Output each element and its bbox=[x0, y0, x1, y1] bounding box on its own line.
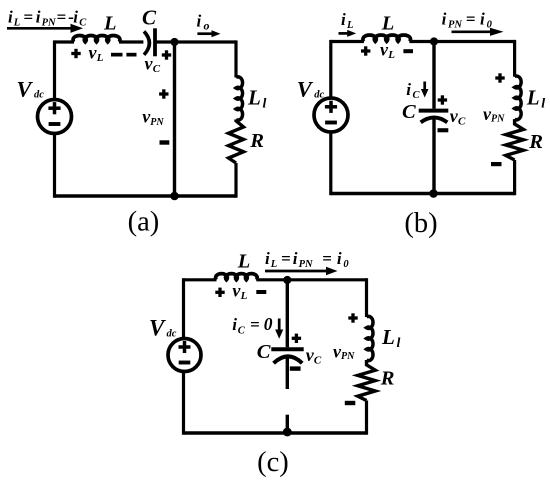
label Ll (b) bbox=[526, 86, 546, 112]
wire right lower (b) bbox=[513, 160, 516, 195]
label iC (b) bbox=[406, 80, 420, 101]
current arrow iL (b) bbox=[339, 30, 357, 37]
label C (c) bbox=[257, 341, 271, 363]
caption (a) bbox=[128, 207, 160, 238]
wire top-right (c) bbox=[256, 278, 366, 281]
plus vL (a) bbox=[71, 49, 80, 58]
svg-text:R: R bbox=[528, 131, 543, 153]
voltage source Vdc (b) bbox=[314, 98, 348, 132]
current arrow iC down (c) bbox=[275, 319, 283, 339]
wire middle upper (c) bbox=[286, 280, 289, 347]
label C (a) bbox=[142, 6, 157, 30]
current arrow iL (a) bbox=[7, 24, 83, 33]
plus vL (b) bbox=[361, 46, 370, 55]
svg-text:C: C bbox=[257, 341, 271, 363]
minus vPN (a) bbox=[160, 140, 170, 144]
label vC (a) bbox=[145, 54, 161, 76]
wire C-to-right (a) bbox=[155, 40, 236, 43]
node P junction dot (a) bbox=[170, 38, 178, 46]
label Ll (a) bbox=[247, 86, 267, 112]
plus vC (c) bbox=[292, 334, 301, 343]
plus vC (b) bbox=[438, 95, 447, 104]
inductor Ll (a) bbox=[236, 77, 243, 120]
capacitor C (b) bbox=[419, 111, 449, 123]
resistor R (c) bbox=[358, 360, 376, 401]
wire L-to-C (a) bbox=[119, 40, 143, 43]
node N junction dot (b) bbox=[429, 189, 438, 198]
inductor L (b) bbox=[363, 35, 411, 41]
wire left lower (c) bbox=[182, 372, 185, 435]
resistor R (b) bbox=[506, 119, 524, 160]
wire bottom (c) bbox=[184, 431, 367, 434]
voltage source Vdc (c) bbox=[168, 339, 201, 372]
wire left upper (a) bbox=[53, 40, 56, 99]
minus vC (b) bbox=[438, 128, 449, 132]
label iL (b) bbox=[341, 10, 353, 31]
label iPN = i0 (b) bbox=[442, 10, 493, 31]
svg-text:C: C bbox=[402, 101, 416, 123]
label vPN (c) bbox=[333, 342, 355, 363]
inductor L (c) bbox=[216, 274, 258, 280]
node P junction dot (c) bbox=[283, 276, 291, 284]
label vPN (b) bbox=[483, 104, 505, 125]
svg-text:(a): (a) bbox=[128, 207, 160, 238]
label vC (b) bbox=[450, 106, 466, 128]
wire right upper (a) bbox=[234, 40, 237, 77]
minus vL (b) bbox=[403, 49, 413, 53]
wire right lower (c) bbox=[365, 401, 368, 435]
current arrow iPN (b) bbox=[452, 28, 504, 36]
label Ll (c) bbox=[381, 325, 401, 351]
wire left lower (b) bbox=[329, 132, 332, 195]
label vL (c) bbox=[232, 281, 247, 303]
current arrow io (a) bbox=[197, 30, 220, 37]
label Vdc (c) bbox=[149, 316, 177, 341]
minus vPN (b) bbox=[491, 162, 502, 166]
wire left upper (c) bbox=[182, 278, 185, 338]
minus vPN (c) bbox=[345, 401, 356, 405]
label vL (b) bbox=[380, 40, 395, 62]
wire right lower (a) bbox=[234, 163, 237, 198]
wire top-left (a) bbox=[55, 40, 75, 43]
label iL = iPN = -iC (a) bbox=[8, 8, 87, 29]
current arrow iL (c) bbox=[265, 267, 338, 276]
label L (a) bbox=[103, 12, 117, 34]
svg-text:(c): (c) bbox=[257, 447, 289, 478]
svg-text:L: L bbox=[381, 13, 395, 35]
node N junction dot (a) bbox=[170, 192, 179, 201]
label iL = iPN = i0 (c) bbox=[265, 249, 349, 270]
resistor R (a) bbox=[229, 120, 244, 164]
caption (c) bbox=[257, 447, 289, 478]
label R (a) bbox=[249, 130, 264, 152]
wire capacitor stub (c) bbox=[286, 358, 289, 389]
wire bottom (a) bbox=[55, 194, 237, 197]
label Vdc (a) bbox=[17, 77, 45, 102]
wire right upper (b) bbox=[513, 40, 516, 77]
svg-text:R: R bbox=[249, 130, 264, 152]
inductor L (a) bbox=[73, 36, 120, 42]
label vPN (a) bbox=[142, 107, 164, 129]
plus vPN (b) bbox=[495, 73, 504, 82]
current arrow iC down (b) bbox=[421, 82, 429, 98]
label io (a) bbox=[197, 12, 210, 33]
svg-text:L: L bbox=[103, 12, 117, 34]
node P junction dot (b) bbox=[430, 37, 438, 45]
voltage source Vdc (a) bbox=[38, 100, 72, 134]
label R (b) bbox=[528, 131, 543, 153]
plus vPN (a) bbox=[159, 89, 168, 98]
svg-text:R: R bbox=[380, 368, 395, 390]
svg-text:C: C bbox=[142, 6, 157, 30]
svg-text:(b): (b) bbox=[404, 208, 437, 239]
label L (c) bbox=[237, 251, 251, 273]
wire middle upper (b) bbox=[432, 42, 435, 109]
label Vdc (b) bbox=[297, 77, 325, 102]
wire left upper (b) bbox=[329, 40, 332, 98]
label L (b) bbox=[381, 13, 395, 35]
wire top-right (b) bbox=[409, 40, 514, 43]
svg-text:L: L bbox=[237, 251, 251, 273]
plus vC (a) bbox=[162, 50, 171, 59]
wire middle lower (b) bbox=[432, 118, 435, 194]
wire top-left (b) bbox=[331, 40, 364, 43]
wire bottom stub open gap (c) bbox=[286, 415, 289, 433]
label iC = 0 (c) bbox=[232, 314, 273, 337]
capacitor C (a) bbox=[144, 28, 155, 56]
inductor Ll (b) bbox=[515, 76, 522, 120]
wire top-left (c) bbox=[184, 278, 217, 281]
wire left lower (a) bbox=[53, 134, 56, 198]
label vC (c) bbox=[306, 345, 322, 367]
label C (b) bbox=[402, 101, 416, 123]
minus dashes vL (a) bbox=[111, 53, 137, 57]
node N junction dot (c) bbox=[283, 428, 292, 437]
plus vL (c) bbox=[215, 288, 224, 297]
plus vPN (c) bbox=[348, 313, 357, 322]
caption (b) bbox=[404, 208, 437, 239]
capacitor C (c) bbox=[271, 349, 303, 363]
wire bottom (b) bbox=[331, 192, 515, 195]
wire right upper (c) bbox=[365, 278, 368, 317]
label R (c) bbox=[380, 368, 395, 390]
inductor Ll (c) bbox=[367, 316, 373, 360]
minus vC (c) bbox=[290, 366, 301, 370]
minus vL (c) bbox=[256, 290, 266, 294]
label vL (a) bbox=[89, 43, 104, 65]
wire middle branch PN (a) bbox=[173, 42, 176, 196]
